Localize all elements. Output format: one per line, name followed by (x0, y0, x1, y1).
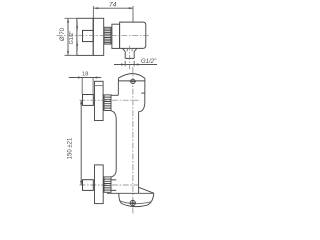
G1/2 vertical dimension arrows (76, 22, 78, 51)
cup inner rim (119, 201, 152, 204)
body left fillet below pipe (111, 111, 116, 177)
knurl rungs (104, 29, 111, 43)
svg-text:Ø 70: Ø 70 (60, 27, 66, 41)
wall plate rectangle (77, 18, 93, 55)
dia 70 dimension line (67, 18, 69, 55)
svg-text:G1/2": G1/2" (69, 31, 75, 45)
lower knurled nut (104, 177, 111, 192)
dimension 74 arrows (94, 7, 133, 9)
dimension 74 line (94, 7, 133, 9)
top screw (131, 79, 135, 83)
upper pipe to body (111, 94, 118, 96)
bottom screw (130, 200, 135, 205)
head left edge (117, 78, 119, 95)
svg-text:G1/2": G1/2" (141, 59, 157, 65)
head right edge (144, 78, 146, 103)
cap section (112, 24, 120, 48)
upper thread square (83, 95, 94, 106)
svg-text:18: 18 (82, 72, 88, 78)
svg-text:74: 74 (109, 2, 117, 9)
lower thread square (83, 180, 94, 191)
upper wall plate (95, 81, 104, 120)
lower pipe to body (111, 180, 116, 191)
upper knurl rungs (104, 97, 111, 108)
upper plate detail line (95, 85, 104, 87)
G1/2 thread square (83, 30, 94, 41)
dome top (118, 74, 144, 79)
dome chord (118, 80, 144, 82)
dia 70 extension ticks (65, 18, 77, 55)
dia 70 arrows (67, 18, 69, 55)
150 dimension line (80, 100, 82, 185)
svg-text:150 ±21: 150 ±21 (67, 137, 73, 159)
G1/2 outlet dimension ext ticks (125, 61, 134, 66)
G1/2 outlet dimension arrows (121, 63, 138, 65)
right shoulder curve (139, 104, 145, 194)
main body rounded (120, 22, 146, 48)
vertical centerline (132, 67, 134, 214)
lower connection centerline (80, 184, 139, 186)
G1/2 outlet dimension line (114, 64, 157, 66)
18 extension lines (82, 78, 93, 95)
outlet funnel (123, 48, 137, 58)
head seam tick (141, 92, 145, 94)
lower wall plate (95, 165, 104, 204)
extension line left of 74 (92, 6, 94, 31)
cup top line (107, 192, 154, 194)
outlet centerline (129, 46, 131, 70)
horizontal centerline (57, 35, 149, 37)
lower knurl rungs (104, 179, 111, 190)
upper connection centerline (80, 99, 139, 101)
cup outer bowl (119, 193, 154, 206)
plate cover rectangle (93, 18, 104, 55)
outlet thread ticks (127, 49, 132, 52)
upper knurled nut (104, 95, 111, 111)
spout slant (139, 187, 154, 193)
knurled nut (104, 27, 111, 44)
150 arrows (80, 100, 82, 185)
18 arrows (78, 76, 97, 78)
18 dimension line (69, 77, 102, 79)
extension line right of 74 (132, 6, 134, 22)
